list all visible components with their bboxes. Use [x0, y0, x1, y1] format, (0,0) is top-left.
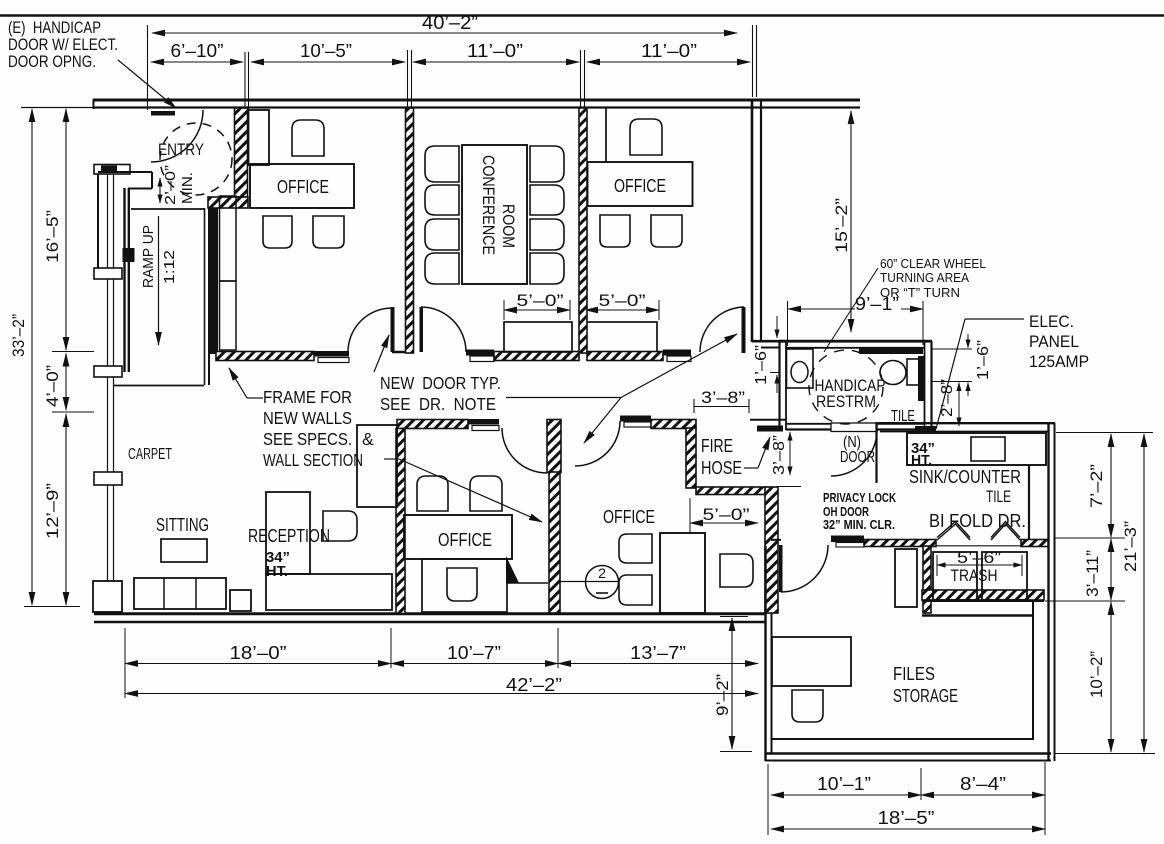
svg-text:FRAME FOR: FRAME FOR — [263, 387, 352, 407]
svg-text:60” CLEAR WHEEL: 60” CLEAR WHEEL — [880, 257, 986, 271]
svg-text:TURNING AREA: TURNING AREA — [880, 271, 970, 285]
svg-text:3’–8”: 3’–8” — [771, 435, 788, 475]
svg-text:DOOR: DOOR — [840, 449, 875, 466]
svg-text:11’–0”: 11’–0” — [467, 41, 523, 61]
svg-text:2: 2 — [598, 565, 606, 581]
svg-text:10’–2”: 10’–2” — [1087, 651, 1106, 698]
svg-text:18’–5”: 18’–5” — [878, 807, 935, 828]
svg-text:8’–4”: 8’–4” — [960, 774, 1006, 794]
svg-text:DOOR OPNG.: DOOR OPNG. — [8, 52, 96, 71]
svg-text:CONFERENCE: CONFERENCE — [479, 155, 497, 255]
svg-text:OR “T” TURN: OR “T” TURN — [880, 286, 960, 300]
svg-text:10’–1”: 10’–1” — [817, 774, 871, 794]
svg-text:FIRE: FIRE — [701, 436, 733, 456]
svg-text:5’–6”: 5’–6” — [957, 548, 1001, 567]
svg-text:SEE DR. NOTE: SEE DR. NOTE — [380, 394, 496, 414]
svg-text:1’–6”: 1’–6” — [975, 340, 992, 380]
svg-text:ELEC.: ELEC. — [1029, 312, 1074, 331]
svg-text:STORAGE: STORAGE — [893, 685, 958, 706]
svg-text:1:12: 1:12 — [161, 250, 178, 284]
svg-text:5’–0”: 5’–0” — [599, 291, 646, 310]
svg-text:OH DOOR: OH DOOR — [823, 505, 869, 519]
svg-text:10’–7”: 10’–7” — [447, 643, 501, 663]
svg-text:5’–0”: 5’–0” — [703, 505, 750, 524]
svg-text:10’–5”: 10’–5” — [300, 41, 352, 61]
svg-text:TRASH: TRASH — [951, 566, 998, 585]
svg-text:CARPET: CARPET — [128, 446, 172, 463]
svg-text:3’–8”: 3’–8” — [701, 388, 745, 407]
svg-text:RECEPTION: RECEPTION — [248, 526, 330, 546]
svg-text:12’–9”: 12’–9” — [43, 483, 62, 539]
svg-text:FILES: FILES — [893, 663, 935, 684]
svg-text:6’–10”: 6’–10” — [171, 41, 224, 61]
svg-text:NEW DOOR TYP.: NEW DOOR TYP. — [380, 373, 501, 393]
svg-text:OFFICE: OFFICE — [614, 176, 666, 196]
svg-text:SITTING: SITTING — [156, 514, 209, 535]
svg-text:HOSE: HOSE — [701, 458, 742, 478]
svg-text:MIN.: MIN. — [179, 172, 196, 204]
svg-text:SEE SPECS.: SEE SPECS. — [263, 429, 352, 449]
svg-text:PANEL: PANEL — [1029, 332, 1079, 351]
svg-text:7’–2”: 7’–2” — [1087, 464, 1106, 508]
svg-text:&: & — [362, 429, 374, 449]
svg-text:5’–0”: 5’–0” — [517, 291, 564, 310]
svg-text:HT.: HT. — [266, 563, 288, 580]
svg-text:WALL SECTION: WALL SECTION — [263, 450, 363, 470]
svg-text:PRIVACY LOCK: PRIVACY LOCK — [823, 491, 896, 505]
svg-text:42’–2”: 42’–2” — [506, 675, 562, 695]
svg-text:1’–6”: 1’–6” — [753, 345, 770, 385]
svg-text:NEW WALLS: NEW WALLS — [263, 408, 352, 428]
svg-text:13’–7”: 13’–7” — [630, 643, 686, 663]
svg-text:ENTRY: ENTRY — [158, 140, 204, 159]
svg-text:RAMP UP: RAMP UP — [140, 225, 157, 288]
svg-text:125AMP: 125AMP — [1029, 352, 1089, 371]
svg-text:4’–0”: 4’–0” — [43, 365, 62, 407]
svg-text:33’–2”: 33’–2” — [9, 314, 28, 357]
svg-text:9’–2”: 9’–2” — [713, 674, 732, 716]
svg-text:32” MIN. CLR.: 32” MIN. CLR. — [823, 518, 895, 532]
svg-text:OFFICE: OFFICE — [438, 530, 492, 550]
svg-text:RESTRM: RESTRM — [816, 392, 876, 411]
svg-text:OFFICE: OFFICE — [277, 177, 329, 197]
svg-text:TILE: TILE — [986, 488, 1011, 506]
svg-text:18’–0”: 18’–0” — [230, 643, 287, 663]
svg-text:2’–0”: 2’–0” — [162, 165, 179, 205]
svg-text:11’–0”: 11’–0” — [641, 41, 697, 61]
svg-text:OFFICE: OFFICE — [603, 507, 655, 527]
svg-text:15’–2”: 15’–2” — [832, 198, 851, 253]
svg-text:ROOM: ROOM — [499, 204, 517, 248]
svg-text:40’–2”: 40’–2” — [422, 13, 478, 34]
svg-text:16’–5”: 16’–5” — [43, 210, 62, 263]
svg-text:3’–11”: 3’–11” — [1083, 550, 1102, 597]
svg-text:21’–3”: 21’–3” — [1121, 521, 1140, 572]
svg-text:SINK/COUNTER: SINK/COUNTER — [909, 466, 1021, 487]
